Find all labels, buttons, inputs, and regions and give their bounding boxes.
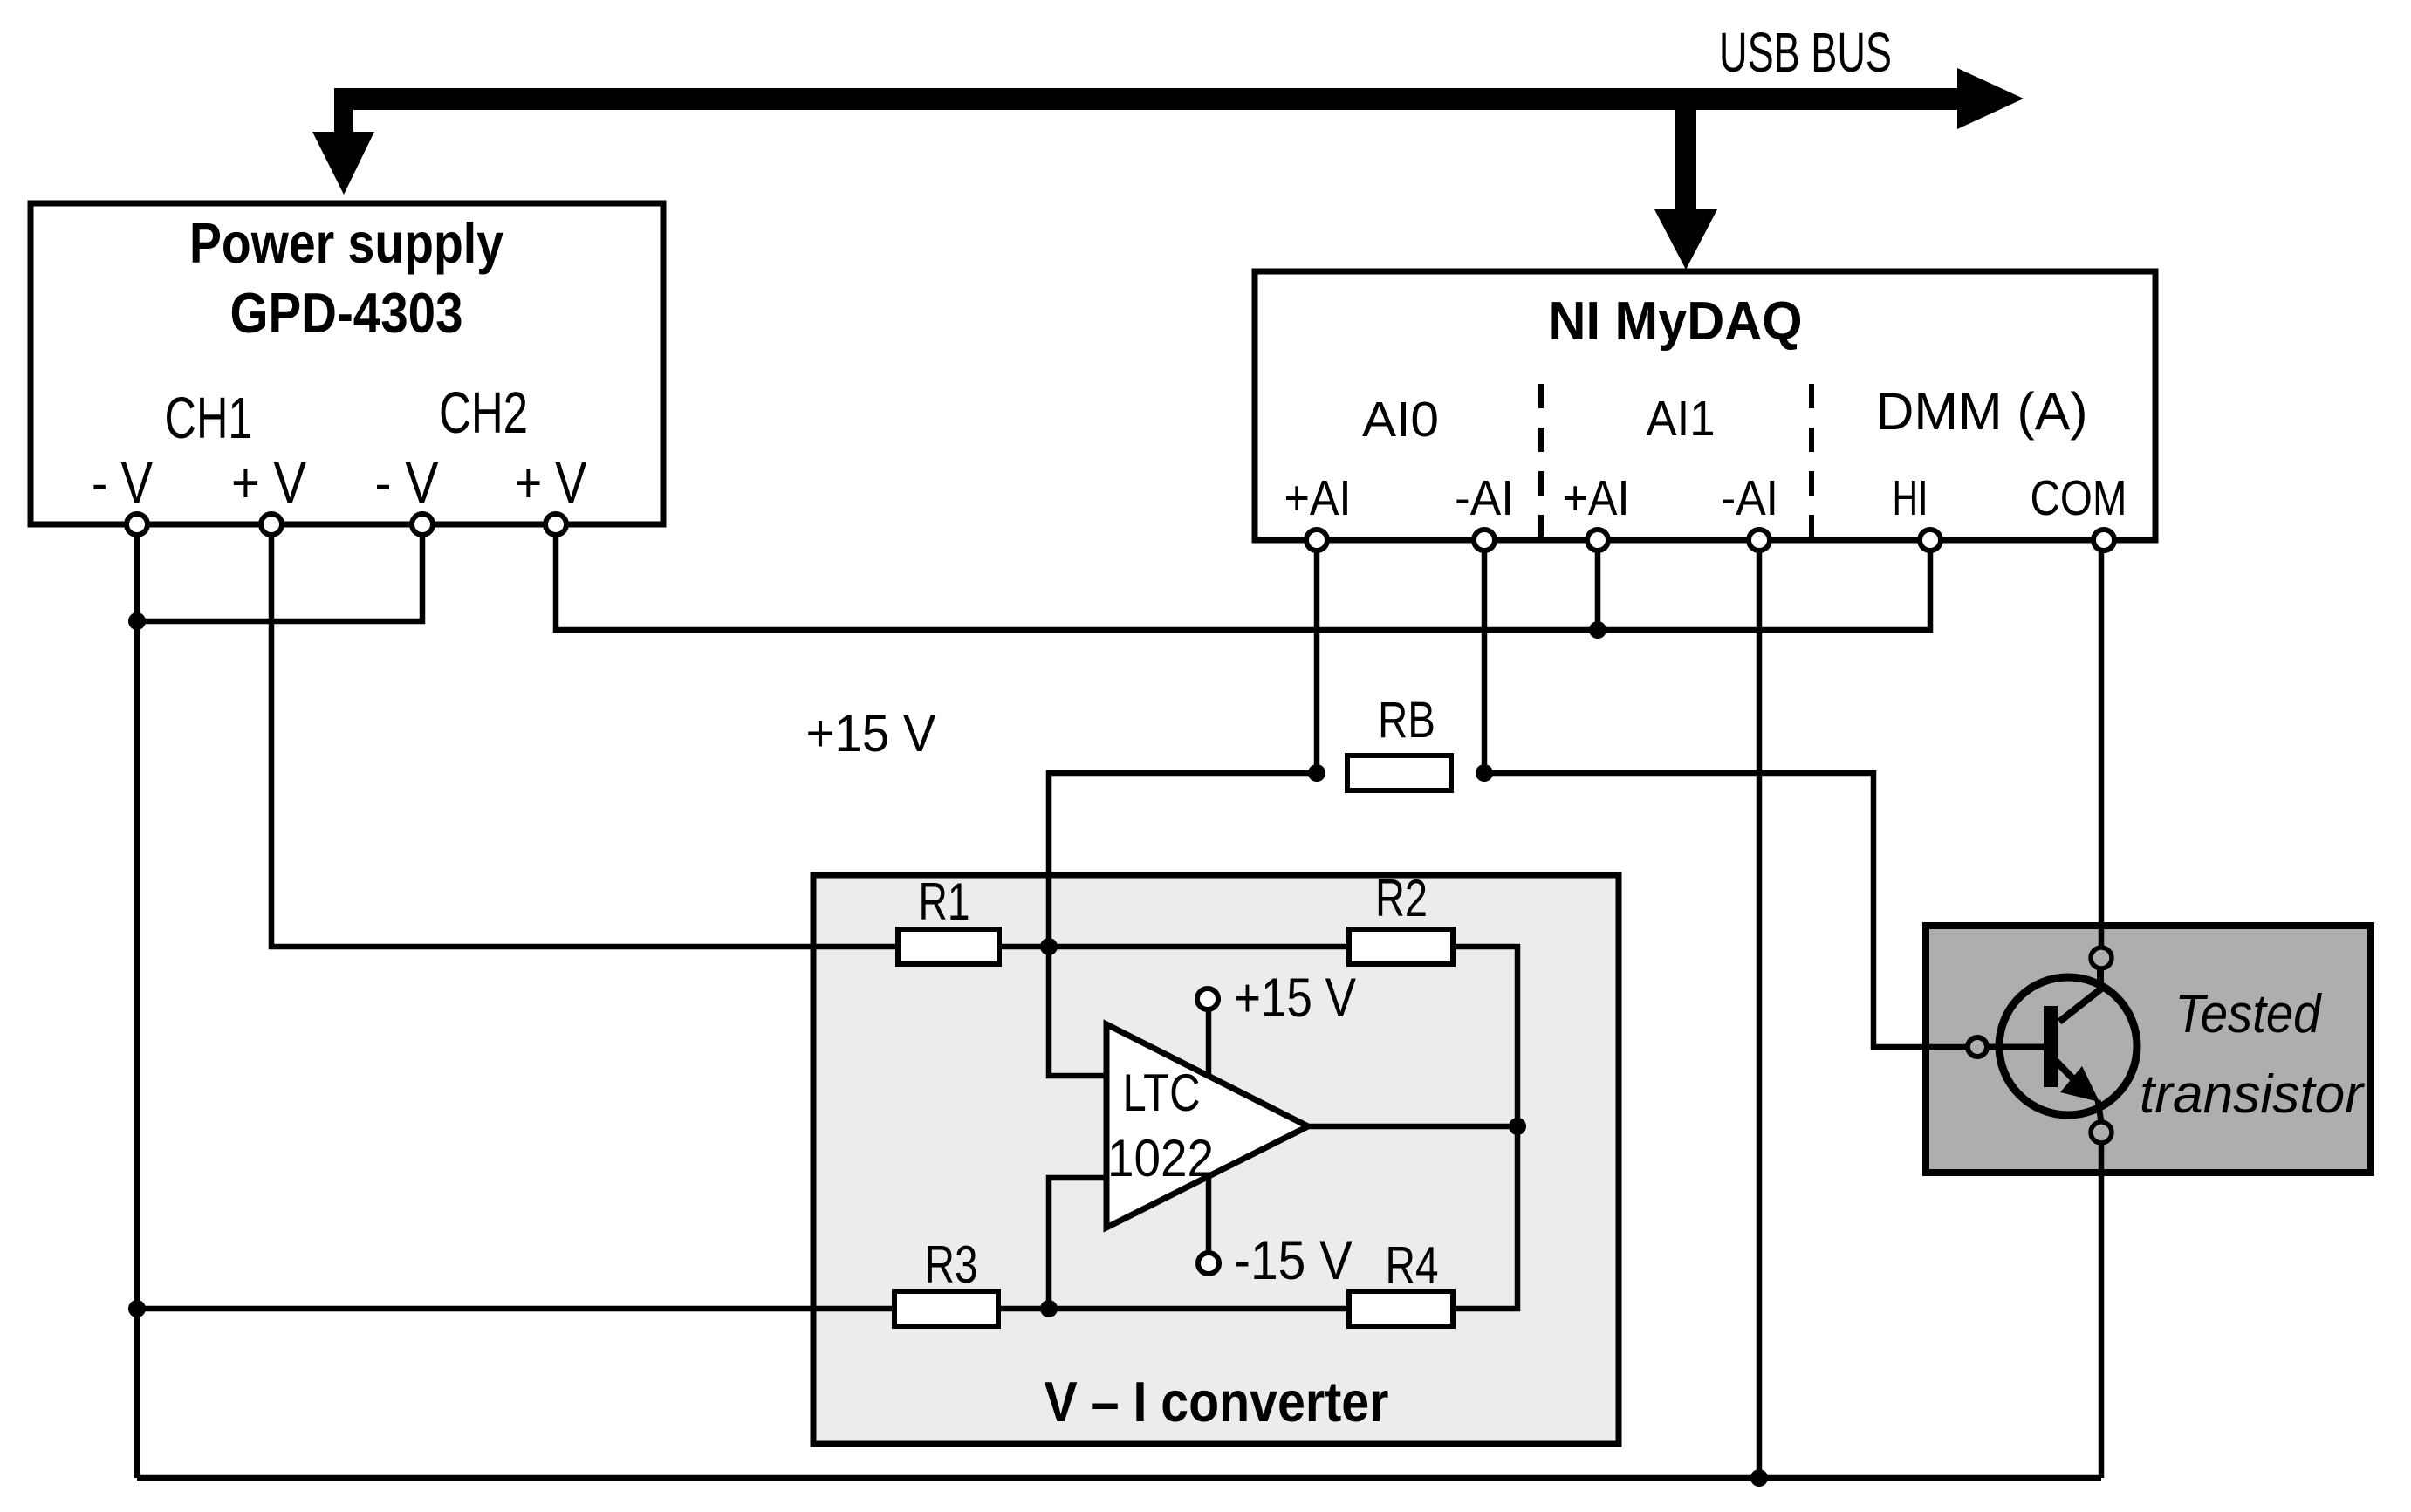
wire CH1 +V down then right to R1	[271, 524, 901, 947]
svg-text:GPD-4303: GPD-4303	[230, 281, 463, 345]
wire RB left to opamp + input	[1049, 773, 1317, 1076]
svg-text:AI0: AI0	[1362, 392, 1439, 448]
svg-text:RB: RB	[1378, 692, 1435, 749]
wire RB right to transistor base	[1484, 773, 1969, 1047]
svg-text:- V: - V	[92, 450, 153, 516]
wire R3 left lead	[137, 1306, 897, 1312]
svg-text:V – I converter: V – I converter	[1045, 1370, 1389, 1433]
wire -AI(AI1) down to bottom rail	[1757, 540, 1763, 1478]
svg-text:Tested: Tested	[2175, 984, 2323, 1044]
dashed separator 2	[1809, 384, 1814, 537]
wire CH2 -V down and left to CH1 -V	[137, 524, 422, 621]
svg-text:+15 V: +15 V	[806, 704, 936, 763]
V-I converter box	[813, 875, 1619, 1444]
wire CH2 +V down then right to HI (+15V line)	[556, 524, 1930, 630]
transistor Q (tested)	[1999, 977, 2137, 1115]
svg-text:Power supply: Power supply	[189, 211, 503, 275]
svg-text:-15 V: -15 V	[1234, 1230, 1353, 1291]
resistor R2	[1349, 929, 1453, 964]
transistor emitter diagonal with arrow	[2056, 1061, 2080, 1086]
svg-text:CH1: CH1	[165, 386, 253, 451]
svg-text:R3: R3	[925, 1235, 978, 1294]
USB BUS thick arrow	[312, 68, 2024, 270]
wire emitter down to bottom rail	[2099, 1143, 2105, 1478]
svg-text:+ V: + V	[231, 450, 306, 516]
wire opamp output	[1308, 1124, 1517, 1130]
wire R1 to R2 horizontal	[999, 944, 1352, 950]
svg-text:CH2: CH2	[439, 380, 528, 446]
svg-text:1022: 1022	[1107, 1129, 1214, 1187]
-15V power terminal	[1198, 1253, 1219, 1274]
wire -15V stub	[1206, 1176, 1212, 1254]
svg-text:-AI: -AI	[1455, 470, 1514, 526]
svg-text:R4: R4	[1386, 1236, 1439, 1295]
svg-text:+AI: +AI	[1563, 470, 1630, 526]
resistor R3	[894, 1291, 998, 1326]
svg-text:LTC: LTC	[1123, 1064, 1201, 1122]
bottom rail wire	[137, 1475, 2101, 1481]
power supply box	[31, 203, 663, 524]
svg-text:NI MyDAQ: NI MyDAQ	[1549, 291, 1803, 352]
transistor base lead	[1987, 1044, 2044, 1050]
wire +AI(AI1) down to +15V line	[1595, 540, 1601, 630]
op-amp U1 LTC1022	[1106, 1024, 1308, 1228]
svg-text:+15 V: +15 V	[1234, 968, 1356, 1029]
svg-text:R1: R1	[919, 872, 970, 931]
svg-text:R2: R2	[1375, 869, 1428, 927]
wire +AI(AI0) down to RB	[1314, 540, 1320, 773]
transistor terminal circles	[1968, 1037, 1987, 1057]
resistor RB	[1347, 756, 1451, 790]
svg-text:transistor: transistor	[2140, 1064, 2365, 1125]
svg-text:+ V: + V	[515, 450, 587, 516]
transistor base bar	[2044, 1006, 2058, 1087]
MyDAQ terminals	[1306, 530, 1327, 551]
dashed separator 1	[1538, 384, 1544, 537]
svg-text:HI: HI	[1893, 470, 1928, 526]
transistor collector diagonal	[2059, 969, 2100, 1022]
svg-text:- V: - V	[375, 450, 439, 516]
svg-text:+AI: +AI	[1284, 470, 1352, 526]
svg-text:AI1: AI1	[1647, 391, 1716, 447]
wire CH1 -V down to bottom rail	[134, 524, 140, 1478]
junction dots	[128, 612, 146, 630]
resistor R4	[1349, 1291, 1453, 1326]
wire +15V stub	[1206, 1009, 1212, 1076]
NI MyDAQ box	[1255, 271, 2155, 540]
+15V power terminal	[1197, 989, 1218, 1009]
resistor R1	[898, 929, 999, 964]
wire R3-R4 junction horizontal	[996, 1306, 1352, 1312]
wire R2 right lead down to R4	[1450, 947, 1517, 1309]
svg-text:USB BUS: USB BUS	[1719, 21, 1892, 84]
svg-text:DMM (A): DMM (A)	[1876, 382, 2088, 441]
power supply terminals	[127, 514, 147, 535]
svg-text:-AI: -AI	[1721, 470, 1778, 526]
wire COM down to collector	[2099, 540, 2105, 948]
svg-text:COM: COM	[2031, 470, 2127, 526]
tested transistor box	[1926, 926, 2371, 1173]
wire -AI(AI0) down to RB	[1482, 540, 1488, 773]
wire inverting input	[1049, 1178, 1106, 1309]
